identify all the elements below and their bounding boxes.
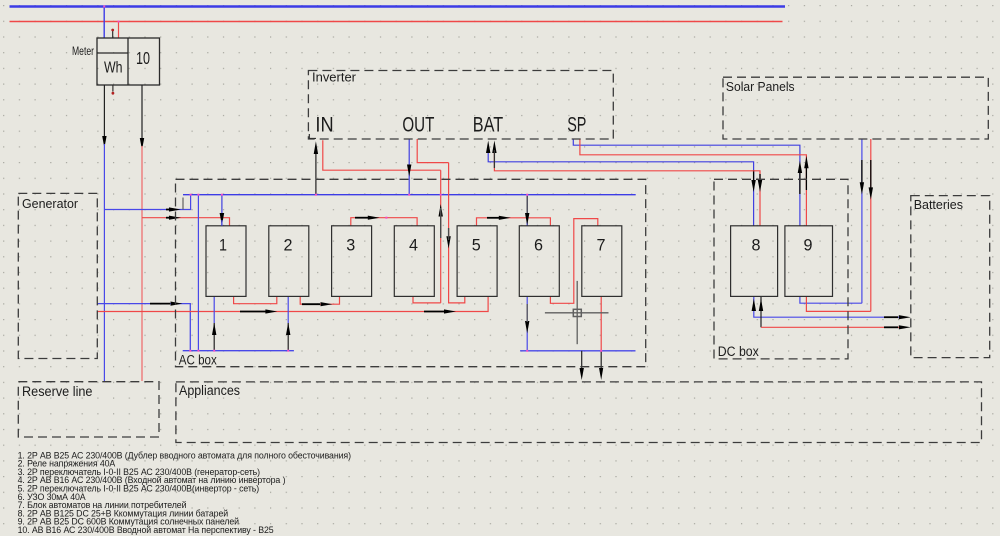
wire: riser IN-red down to box4 bottom — [440, 170, 442, 303]
wire: appliances drop 1 — [581, 351, 583, 370]
wire: solar blue down — [861, 139, 863, 303]
wire: IN label leader — [309, 134, 316, 138]
wire: meter left output black top — [103, 85, 105, 140]
wire: generator red bus across AC box — [97, 296, 488, 311]
dashed box: Solar Panels — [723, 77, 988, 139]
svg-text:4: 4 — [409, 236, 418, 255]
svg-text:7: 7 — [597, 236, 606, 255]
svg-text:Appliances: Appliances — [179, 383, 240, 398]
meter 10: bottom stub with red dot — [112, 85, 114, 92]
wire: inverter SP red to box9 — [580, 139, 807, 226]
wire: inverter IN red to riser — [323, 140, 441, 170]
meter 10: feed wire red — [118, 22, 120, 39]
arrow down meter right — [140, 138, 144, 150]
wire: meter right output black top — [141, 85, 143, 142]
wire: inverter BAT blue to box8 — [488, 145, 753, 226]
wire: box6 blue input from bus — [526, 195, 528, 226]
breaker box 8 — [731, 226, 778, 297]
arrow on red bus 2 — [424, 311, 445, 313]
wire: generator blue output — [97, 304, 190, 351]
wire: meter right output red to reserve — [141, 146, 143, 381]
dashed box: Reserve line — [18, 382, 159, 437]
wire: lower blue bus left — [183, 350, 294, 352]
wire: box6 red out up to box7 top — [550, 219, 597, 304]
breaker box 6 — [519, 226, 559, 297]
svg-text:1: 1 — [219, 236, 227, 255]
dashed box: Inverter — [308, 71, 613, 140]
wire: box1 red out to box2 — [234, 296, 277, 303]
arrow right on blue branch — [166, 209, 172, 211]
svg-text:3: 3 — [346, 236, 355, 255]
wire: box9 bottom blue to solar — [800, 296, 862, 303]
svg-text:6: 6 — [534, 236, 543, 255]
breaker box 3 — [332, 226, 372, 297]
breaker box 4 — [394, 226, 434, 297]
svg-text:5: 5 — [472, 236, 481, 255]
svg-text:SP: SP — [567, 113, 586, 136]
breaker box 7 — [582, 226, 622, 297]
arrow down meter left — [102, 136, 106, 148]
wire: inverter OUT blue to bus — [408, 139, 410, 195]
wire: box9 bottom red to solar — [806, 296, 870, 311]
svg-text:Solar Panels: Solar Panels — [726, 80, 795, 94]
wire: riser OUT-red down to box5 bottom — [449, 163, 465, 303]
wire: box5 top link to box6 top — [477, 218, 551, 226]
svg-text:10. АВ В16 АС 230/400В Вводной: 10. АВ В16 АС 230/400В Вводной автомат Н… — [18, 525, 274, 535]
breaker box 2 — [269, 226, 309, 297]
svg-text:Batteries: Batteries — [914, 198, 963, 212]
arrow right on red branch — [166, 217, 172, 219]
wire: box1 bottom blue to lower bus — [213, 296, 215, 323]
svg-text:9: 9 — [804, 236, 813, 255]
breaker box 5 — [457, 226, 497, 297]
wire: top red bus L — [10, 21, 783, 23]
dashed box: AC box — [176, 179, 646, 366]
meter 10: body — [97, 38, 160, 85]
wire: blue riser bus to lower bus — [197, 195, 199, 351]
wire: inverter IN black from bus with up arrow — [315, 146, 317, 195]
dashed box: Batteries — [911, 196, 990, 358]
svg-text:8: 8 — [752, 236, 761, 255]
tick at bus left end — [182, 198, 184, 210]
svg-text:Inverter: Inverter — [312, 71, 356, 85]
dashed box: Generator — [18, 193, 97, 358]
svg-text:AC box: AC box — [179, 353, 217, 368]
wire: lower blue bus right — [520, 350, 635, 352]
legend list — [18, 450, 351, 535]
wire: box6 bottom blue to lower bus2 — [526, 296, 528, 350]
svg-text:Reserve line: Reserve line — [22, 384, 93, 399]
breaker box 9 — [785, 226, 833, 297]
svg-text:DC box: DC box — [718, 344, 759, 359]
svg-text:Generator: Generator — [22, 197, 78, 211]
wire: box7 bottom red to bus2 — [600, 296, 602, 350]
breaker box 1 — [206, 226, 246, 297]
meter 10: top stub with red dot — [112, 31, 114, 39]
svg-text:Meter: Meter — [72, 46, 94, 58]
meter 10: feed wire blue — [103, 7, 105, 39]
wire: meter blue branch to AC bus — [104, 195, 190, 210]
CAD crosshair cursor — [545, 281, 609, 344]
svg-text:10: 10 — [136, 48, 150, 68]
wire: box1 blue input from bus — [221, 195, 223, 226]
wire: box2 bottom blue to lower bus — [287, 296, 289, 323]
svg-text:BAT: BAT — [473, 113, 504, 136]
svg-text:Wh: Wh — [104, 60, 123, 77]
arrow on red bus 1 — [240, 311, 266, 313]
wire: inverter OUT red to riser — [417, 139, 448, 163]
wire: box8 bottom blue to batteries — [754, 296, 899, 317]
wire: top blue bus N — [10, 5, 786, 7]
wire: inverter BAT red to box8 — [494, 145, 760, 226]
wire: box4 bottom red to riser — [413, 296, 441, 303]
re-draw wire stubs over box fills: box1 blue/red entries — [221, 220, 223, 226]
dashed box: Appliances — [176, 382, 982, 443]
wire: appliances drop 2 — [600, 351, 602, 370]
svg-text:OUT: OUT — [402, 113, 434, 136]
wire: solar red down — [870, 139, 872, 311]
wire: box2 red out to box3 — [300, 296, 339, 304]
wire: main AC blue bus — [183, 194, 636, 196]
wire: meter red branch into box1 — [142, 218, 230, 226]
wire: box3 top link to box4 top — [351, 218, 417, 226]
wire: inverter SP blue to box9 — [573, 139, 800, 226]
svg-text:2: 2 — [284, 236, 293, 255]
svg-text:IN: IN — [315, 113, 333, 136]
wire: box8 bottom red to batteries — [760, 296, 762, 327]
dashed box: DC box — [714, 179, 848, 359]
wire: meter left output blue to reserve — [103, 144, 105, 381]
